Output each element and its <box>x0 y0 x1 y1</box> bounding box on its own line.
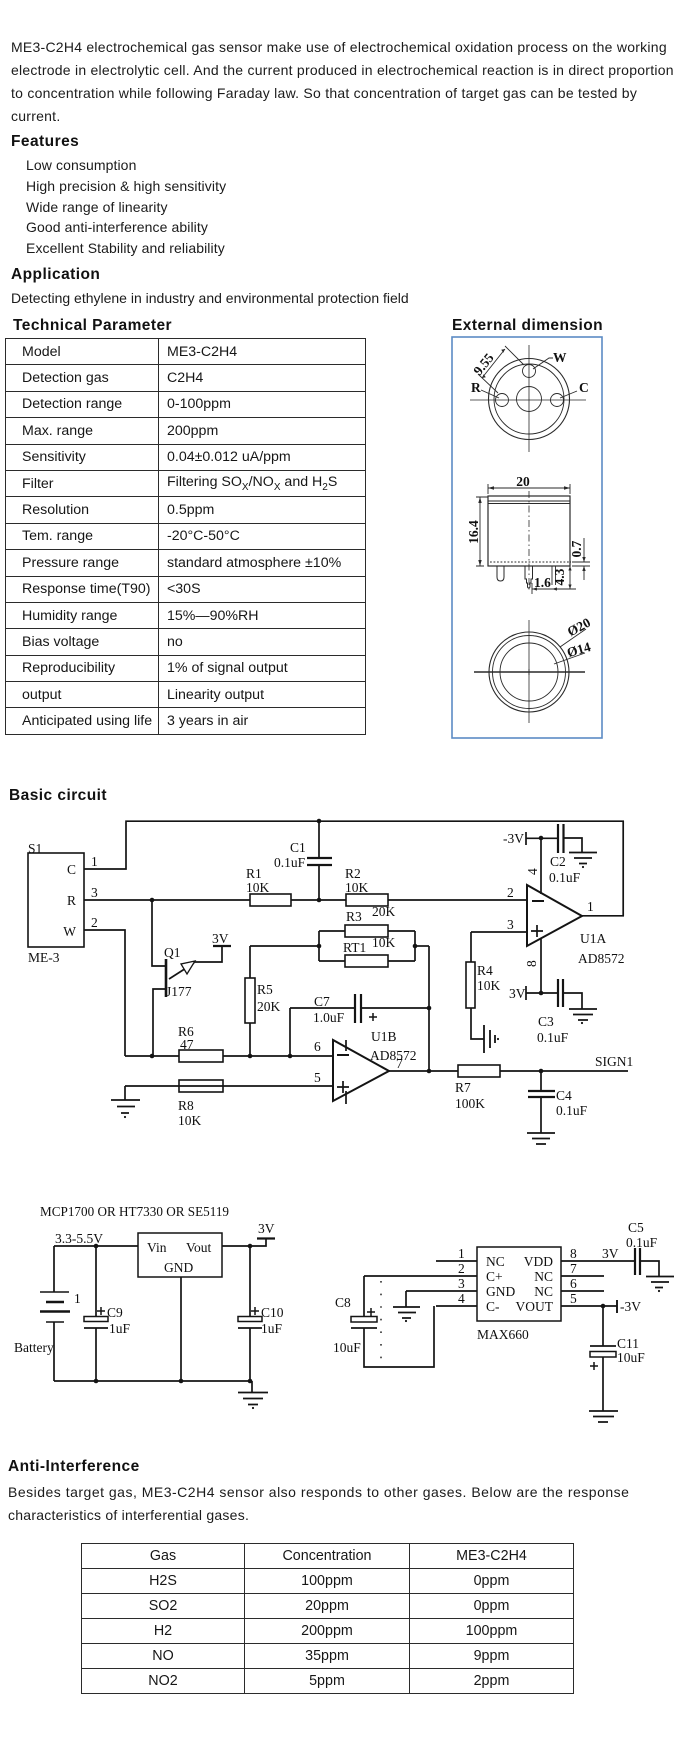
svg-text:1.6: 1.6 <box>534 575 551 590</box>
wire U1B output <box>389 1070 628 1072</box>
resistor R1 <box>250 894 291 906</box>
node C10 top dot <box>248 1244 253 1249</box>
pin 6 wire <box>561 1290 604 1292</box>
svg-text:RT1: RT1 <box>343 940 366 955</box>
svg-text:R: R <box>67 893 76 908</box>
svg-text:10uF: 10uF <box>617 1350 645 1365</box>
top view inner circle <box>494 364 564 434</box>
svg-text:0.1uF: 0.1uF <box>626 1235 658 1250</box>
resistor R6 <box>179 1050 223 1062</box>
svg-text:8: 8 <box>524 960 539 967</box>
svg-text:1uF: 1uF <box>109 1321 131 1336</box>
dim 4.3 line <box>532 566 576 589</box>
side view bottom dotted flange <box>490 561 571 563</box>
capacitor C9 <box>84 1246 108 1381</box>
svg-text:20K: 20K <box>372 904 396 919</box>
svg-text:VOUT: VOUT <box>516 1299 554 1314</box>
svg-text:4: 4 <box>525 868 540 875</box>
Basic circuit heading <box>9 787 107 805</box>
ground at R4 (rotated) <box>484 1025 495 1053</box>
hole R <box>496 394 509 407</box>
IC MAX660 box <box>477 1247 561 1321</box>
wire W pin down to R6 line <box>84 930 125 1056</box>
wire R1 to R2 <box>291 899 346 901</box>
ground at C2 <box>569 853 597 864</box>
svg-text:1.0uF: 1.0uF <box>313 1010 345 1025</box>
dim 1.6 lines <box>531 583 533 594</box>
capacitor C11 <box>590 1306 616 1411</box>
svg-text:W: W <box>553 350 567 365</box>
svg-text:4: 4 <box>458 1291 465 1306</box>
svg-text:C9: C9 <box>107 1305 123 1320</box>
node C9 top dot <box>94 1244 99 1249</box>
node C4 top dot <box>539 1069 544 1074</box>
svg-text:3: 3 <box>507 917 514 932</box>
pin 3 wire <box>406 1290 477 1292</box>
Q1 gate arrowhead <box>181 961 195 974</box>
svg-text:3: 3 <box>458 1276 465 1291</box>
svg-text:6: 6 <box>570 1276 577 1291</box>
battery B1 <box>40 1246 70 1381</box>
svg-text:C4: C4 <box>556 1088 572 1103</box>
node R3/RT1 left dot <box>317 944 322 949</box>
svg-text:R2: R2 <box>345 866 361 881</box>
svg-text:R8: R8 <box>178 1098 194 1113</box>
wire right edge down to U1A output <box>622 821 624 916</box>
op-amp U1B <box>333 1040 389 1101</box>
node C10 bottom dot <box>248 1379 253 1384</box>
svg-text:100K: 100K <box>455 1096 485 1111</box>
hole W <box>523 365 536 378</box>
svg-text:9.55: 9.55 <box>470 350 497 378</box>
pin 2 wire <box>364 1275 477 1277</box>
capacitor C5 <box>635 1248 659 1276</box>
dim 20 line <box>488 484 570 494</box>
features list <box>26 155 226 259</box>
leader D20 <box>560 629 586 647</box>
svg-text:C11: C11 <box>617 1336 639 1351</box>
dim 0.7 lines <box>572 538 590 580</box>
wire R2 to U1A pin2 <box>388 899 527 901</box>
svg-text:J177: J177 <box>166 984 192 999</box>
wire R6 line <box>125 1055 333 1057</box>
capacitor C7 <box>290 994 429 1056</box>
wire R8 line <box>125 1086 333 1100</box>
svg-text:C8: C8 <box>335 1295 351 1310</box>
svg-text:C-: C- <box>486 1299 500 1314</box>
svg-text:1: 1 <box>74 1291 81 1306</box>
node C1 top dot <box>317 819 322 824</box>
wire right junction to feedback line <box>415 945 429 947</box>
svg-text:C: C <box>579 380 589 395</box>
svg-text:10K: 10K <box>477 978 501 993</box>
node GND pin dot <box>179 1379 184 1384</box>
Application heading <box>11 266 100 284</box>
ground at C4 <box>527 1133 555 1144</box>
svg-text:8: 8 <box>570 1246 577 1261</box>
svg-text:20K: 20K <box>257 999 281 1014</box>
Features heading <box>11 133 79 151</box>
thermistor RT1 <box>319 960 415 962</box>
svg-text:Battery: Battery <box>14 1340 54 1355</box>
hole C <box>551 394 564 407</box>
svg-text:C: C <box>67 862 76 877</box>
svg-text:-3V: -3V <box>620 1299 641 1314</box>
svg-text:MCP1700 OR HT7330 OR SE5119: MCP1700 OR HT7330 OR SE5119 <box>40 1204 229 1219</box>
pin 1 <box>497 566 504 581</box>
wire U1A pin3 <box>471 931 527 933</box>
node pin5 dot <box>601 1304 606 1309</box>
svg-text:47: 47 <box>180 1037 194 1052</box>
wire Vout to 3V <box>222 1239 266 1246</box>
svg-text:GND: GND <box>164 1260 193 1275</box>
svg-text:R5: R5 <box>257 982 273 997</box>
U1A pin8 <box>540 939 542 993</box>
svg-text:R7: R7 <box>455 1080 471 1095</box>
svg-text:4.3: 4.3 <box>552 568 567 585</box>
node C1 bottom dot <box>317 898 322 903</box>
pin 1 wire <box>436 1260 477 1262</box>
bottom view center mark <box>526 669 532 675</box>
pin 7 wire <box>561 1275 604 1277</box>
capacitor C3 <box>558 979 582 1009</box>
node R3/RT1 right dot <box>413 944 418 949</box>
technical parameter table <box>5 338 366 735</box>
wire U1A output pin1 <box>582 915 624 917</box>
capacitor C10 <box>238 1246 262 1381</box>
transistor Q1 <box>152 900 231 1056</box>
svg-text:10K: 10K <box>246 880 270 895</box>
Anti-Interference heading <box>8 1458 140 1476</box>
ground at pin3 <box>405 1291 407 1307</box>
wire feedback vertical <box>428 946 430 1071</box>
capacitor C8 <box>351 1276 434 1367</box>
3V supply bar <box>257 1237 275 1239</box>
pin 3 <box>552 566 556 585</box>
circuit svg placeholder <box>0 805 680 1445</box>
svg-text:Vout: Vout <box>186 1240 212 1255</box>
pin 5 wire <box>561 1305 617 1307</box>
svg-text:6: 6 <box>314 1039 321 1054</box>
svg-text:U1B: U1B <box>371 1029 397 1044</box>
External dimension heading <box>452 317 603 335</box>
svg-text:R3: R3 <box>346 909 362 924</box>
svg-text:Ø20: Ø20 <box>565 615 593 640</box>
svg-text:NC: NC <box>534 1269 553 1284</box>
external dimension drawing placeholder <box>0 330 680 750</box>
svg-text:R: R <box>471 380 481 395</box>
svg-text:AD8572: AD8572 <box>370 1048 417 1063</box>
bottom view mid circle <box>493 636 566 709</box>
leader D14 <box>554 653 585 664</box>
svg-text:C3: C3 <box>538 1014 554 1029</box>
svg-text:3V: 3V <box>509 986 526 1001</box>
svg-text:7: 7 <box>570 1261 577 1276</box>
svg-text:C1: C1 <box>290 840 306 855</box>
svg-text:3: 3 <box>91 885 98 900</box>
leader W <box>533 358 553 369</box>
pin 8 wire <box>561 1260 635 1262</box>
svg-text:VDD: VDD <box>524 1254 553 1269</box>
wire GND pin <box>180 1277 182 1381</box>
U1A pin4 <box>540 838 542 894</box>
svg-text:10K: 10K <box>372 935 396 950</box>
side view body <box>488 496 570 566</box>
svg-text:AD8572: AD8572 <box>578 951 625 966</box>
Technical Parameter heading <box>13 317 172 335</box>
svg-text:16.4: 16.4 <box>466 520 481 544</box>
svg-text:0.1uF: 0.1uF <box>549 870 581 885</box>
svg-text:0.1uF: 0.1uF <box>537 1030 569 1045</box>
svg-text:10uF: 10uF <box>333 1340 361 1355</box>
node C7 right dot <box>427 1006 432 1011</box>
bottom view crosshair <box>474 671 585 673</box>
svg-text:10K: 10K <box>345 880 369 895</box>
svg-text:NC: NC <box>486 1254 505 1269</box>
node C7 branch dot <box>288 1054 293 1059</box>
svg-text:U1A: U1A <box>580 931 606 946</box>
svg-text:S1: S1 <box>28 841 42 856</box>
svg-text:2: 2 <box>507 885 514 900</box>
svg-text:NC: NC <box>534 1284 553 1299</box>
svg-text:C5: C5 <box>628 1220 644 1235</box>
side view center line <box>528 491 530 592</box>
bottom view inner circle <box>500 643 558 701</box>
svg-text:0.7: 0.7 <box>569 540 584 557</box>
resistor R8 <box>179 1080 223 1092</box>
node R5 bottom dot <box>248 1054 253 1059</box>
ground at C11 <box>589 1411 618 1422</box>
top view crosshair <box>470 345 586 452</box>
svg-text:-3V: -3V <box>503 831 524 846</box>
node U1B output dot <box>427 1069 432 1074</box>
svg-text:Ø14: Ø14 <box>565 639 592 660</box>
wire top rail <box>125 820 624 822</box>
leader R <box>481 390 499 398</box>
svg-text:R1: R1 <box>246 866 262 881</box>
svg-text:1: 1 <box>587 899 594 914</box>
svg-text:1uF: 1uF <box>261 1321 283 1336</box>
svg-text:W: W <box>63 924 76 939</box>
ground at C5 <box>646 1277 674 1288</box>
pin 2 <box>525 566 533 588</box>
dim 16.4 line <box>476 497 488 566</box>
svg-text:C2: C2 <box>550 854 566 869</box>
svg-text:0.1uF: 0.1uF <box>274 855 306 870</box>
node R junction dot <box>150 898 155 903</box>
side view top cap lines <box>488 501 570 504</box>
node C9 bottom dot <box>94 1379 99 1384</box>
op-amp U1A <box>527 885 582 946</box>
-3V tick <box>616 1300 618 1313</box>
capacitor C4 <box>528 1071 555 1133</box>
svg-text:Q1: Q1 <box>164 945 181 960</box>
R3/RT1 end bars <box>319 931 415 961</box>
svg-text:5: 5 <box>570 1291 577 1306</box>
svg-text:GND: GND <box>486 1284 515 1299</box>
svg-text:10K: 10K <box>178 1113 202 1128</box>
resistor R5 <box>249 946 251 1056</box>
svg-text:7: 7 <box>396 1056 403 1071</box>
svg-text:C7: C7 <box>314 994 330 1009</box>
capacitor C1 <box>307 821 332 900</box>
anti-interference table <box>81 1543 574 1694</box>
dashed line at C8 <box>380 1281 382 1361</box>
svg-text:2: 2 <box>91 915 98 930</box>
svg-text:Vin: Vin <box>147 1240 167 1255</box>
resistor R4 <box>471 932 484 1039</box>
intro paragraph <box>11 36 680 128</box>
pin 4 wire <box>436 1305 477 1307</box>
svg-text:MAX660: MAX660 <box>477 1327 529 1342</box>
svg-text:SIGN1: SIGN1 <box>595 1054 633 1069</box>
svg-text:0.1uF: 0.1uF <box>556 1103 588 1118</box>
regulator box <box>138 1233 222 1277</box>
resistor R3 <box>319 930 415 932</box>
svg-text:5: 5 <box>314 1070 321 1085</box>
svg-text:1: 1 <box>91 854 98 869</box>
svg-text:1: 1 <box>458 1246 465 1261</box>
wire R5 top to R3/RT1 left <box>250 945 319 947</box>
leader C <box>560 391 577 398</box>
node Q1 source dot <box>150 1054 155 1059</box>
svg-text:3V: 3V <box>212 931 229 946</box>
resistor R7 <box>458 1065 500 1077</box>
svg-text:C+: C+ <box>486 1269 503 1284</box>
ground at battery rail <box>251 1381 253 1392</box>
svg-text:3V: 3V <box>258 1221 275 1236</box>
ground at C3 <box>569 1009 597 1020</box>
wire C pin to top rail <box>84 822 126 869</box>
top view center hole <box>517 387 542 412</box>
wire R pin to R1 <box>84 899 250 901</box>
svg-text:ME-3: ME-3 <box>28 950 60 965</box>
svg-text:2: 2 <box>458 1261 465 1276</box>
svg-text:3V: 3V <box>602 1246 619 1261</box>
bottom view outer circle <box>489 632 569 712</box>
capacitor C2 <box>558 824 582 853</box>
svg-text:C10: C10 <box>261 1305 284 1320</box>
resistor R2 <box>346 894 388 906</box>
top view outer circle <box>489 359 570 440</box>
wire bottom rail <box>54 1380 252 1382</box>
wire battery to Vin <box>54 1245 138 1247</box>
svg-text:R4: R4 <box>477 963 493 978</box>
svg-text:20: 20 <box>516 474 530 489</box>
dim 9.55 lines <box>478 346 524 393</box>
sensor S1 box <box>28 853 84 947</box>
ground at R8 <box>111 1100 140 1113</box>
